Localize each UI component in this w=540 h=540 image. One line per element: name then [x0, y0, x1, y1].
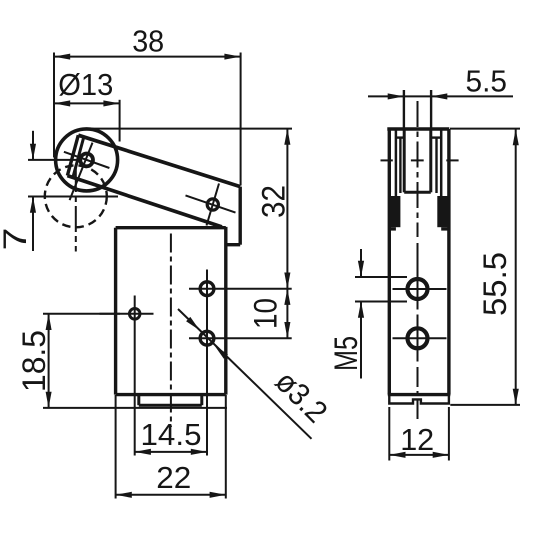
svg-text:7: 7 — [0, 228, 33, 251]
svg-text:32: 32 — [256, 185, 292, 218]
svg-text:22: 22 — [156, 460, 191, 495]
svg-text:12: 12 — [400, 422, 434, 457]
svg-text:18.5: 18.5 — [16, 330, 52, 392]
svg-text:55.5: 55.5 — [477, 252, 513, 316]
svg-text:38: 38 — [132, 24, 164, 59]
svg-text:14.5: 14.5 — [141, 417, 202, 452]
svg-text:M5: M5 — [328, 336, 364, 371]
svg-text:10: 10 — [248, 298, 284, 329]
svg-text:Ø13: Ø13 — [58, 67, 113, 102]
svg-text:5.5: 5.5 — [466, 64, 508, 99]
